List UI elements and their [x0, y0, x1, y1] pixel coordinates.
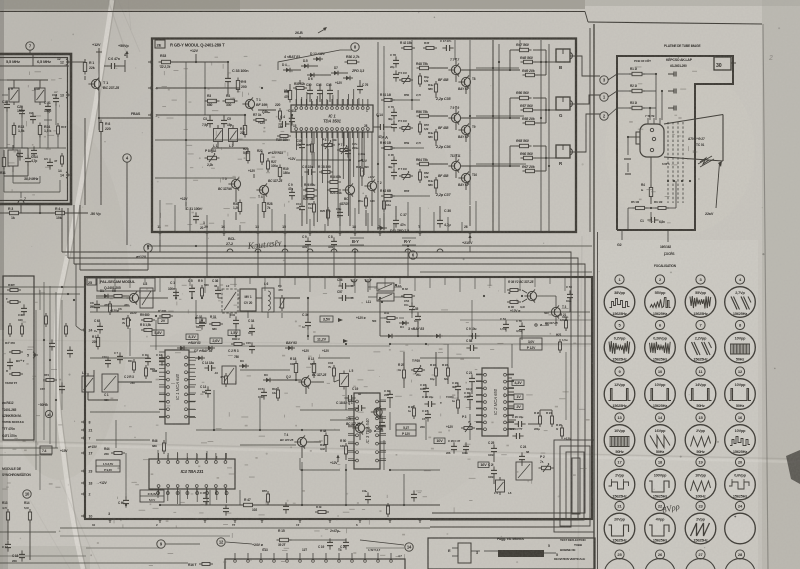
label +12V [302, 349, 330, 353]
waveform scope 6 [645, 320, 676, 362]
node 14 circled [405, 543, 413, 551]
bottom IC box partial [225, 553, 405, 569]
resistor column R60 [380, 141, 421, 150]
capacitor 2,2p C36 [435, 145, 451, 149]
resistor R31 680 [209, 315, 223, 331]
CRT socket pins [645, 114, 670, 166]
wire [157, 62, 240, 115]
capacitor C27 [422, 409, 431, 422]
wire IC1 pin drops [297, 88, 365, 224]
resistor R22s [430, 363, 438, 379]
resistor R18 390 [318, 165, 333, 174]
capacitor C30 [306, 83, 313, 98]
wire [126, 162, 128, 245]
PAL-SECAM module label [87, 278, 155, 291]
label C1 680 [104, 393, 109, 402]
resistor R48 75k [416, 62, 432, 70]
coil L6 vertical [262, 282, 274, 312]
diode D3b [239, 359, 249, 368]
deflection module box [428, 538, 595, 569]
boxed 2V b [514, 404, 523, 410]
transistor T1 [88, 77, 120, 90]
capacitor 2,2p C35 [435, 97, 451, 101]
capacitor C17s [258, 387, 267, 400]
boxed 3,0V P12V [520, 338, 542, 350]
resistor R47 [516, 43, 532, 52]
capacitor 2,2p C37 [435, 193, 451, 197]
PAL-SECAM module box [85, 277, 592, 519]
label +12V [92, 43, 102, 52]
resistor R8 220 [99, 120, 110, 135]
label 48,4 IF [44, 157, 58, 170]
label FOCUS 16V [660, 230, 674, 256]
resistor R12s [272, 387, 280, 401]
boxed 5,8V [152, 330, 164, 336]
wire SECAM verticals [116, 300, 566, 505]
capacitor C19 IF [52, 93, 59, 106]
waveform scope 20 [725, 457, 756, 499]
terminal SECAM bottom 360 [357, 518, 363, 523]
wire B to node 3 [577, 56, 600, 76]
terminal 23 SECAM left [81, 468, 92, 474]
resistor R26b 1k [556, 423, 564, 439]
resistor R22 [257, 149, 264, 165]
waveform scope 27 (partial) [686, 550, 715, 569]
label -50Hz [38, 402, 48, 407]
label PLATINE DE TUBE IMAGE [664, 44, 700, 48]
resistor R18 10k [290, 357, 298, 376]
capacitor C32 [196, 315, 205, 330]
handwritten Kontroll [246, 239, 283, 252]
resistor R19b [383, 198, 392, 212]
label +12V [510, 309, 521, 313]
resistor R36s [507, 289, 521, 296]
capacitor C36b [302, 313, 311, 330]
label BCL 27-2 [226, 237, 236, 246]
wire [650, 74, 662, 120]
label 10n0 [466, 387, 473, 391]
capacitor C54 [500, 317, 509, 332]
resistor R58 [522, 117, 538, 125]
capacitor C10 [296, 139, 305, 152]
resistor R24b [546, 411, 554, 427]
wire long verticals left of border [540, 40, 550, 232]
waveform scope 7 [685, 320, 716, 362]
wire [0, 562, 188, 564]
waveform scope 18 [645, 457, 676, 499]
pot P29 [411, 359, 425, 377]
capacitor C57 47 [337, 290, 354, 301]
label BAY93 [458, 87, 468, 91]
label +12V [248, 169, 256, 178]
capacitor C15 [246, 341, 255, 354]
capacitor C30b 4,7u [437, 209, 451, 228]
waveform scope 10 [645, 367, 676, 409]
marker 30 box [714, 57, 736, 70]
wire [307, 297, 380, 320]
pot P8 R32 [205, 149, 220, 167]
capacitor C19b [318, 538, 333, 549]
node 9b circled [157, 540, 165, 548]
resistor R21b 11k [308, 201, 316, 215]
label 5 BOBINE [548, 544, 550, 548]
label +12V rail [190, 49, 199, 62]
terminal 13 RGB bottom [255, 225, 261, 236]
wire bundle [205, 114, 264, 220]
capacitor C34 1n [248, 319, 255, 336]
resistor R28 7k [262, 200, 272, 215]
sync box contents [5, 283, 27, 385]
wire [7, 80, 48, 85]
resistor R36 2,7k [345, 55, 360, 64]
boxed 3,5V [320, 316, 333, 322]
label BAY93 [458, 183, 468, 187]
label PCB OF CRT [634, 58, 651, 63]
resistor R34 62k [327, 175, 341, 184]
small box 7.4 [40, 446, 52, 454]
capacitor C30s 700n [464, 391, 473, 404]
terminal 2 SECAM left [81, 491, 91, 497]
waveform scope 16 [725, 413, 756, 455]
resistor R1c 1k [629, 67, 645, 76]
diode D2s [385, 334, 395, 338]
capacitor C5s [188, 279, 195, 296]
connector E box [448, 543, 471, 563]
label pins [262, 548, 402, 558]
capacitor C9 [288, 183, 295, 200]
resistor R25 18k [303, 195, 317, 202]
anode 22kV [705, 161, 722, 216]
wire bus horizontal 3 [74, 264, 585, 513]
resistor R41 560 [384, 311, 398, 324]
coil L1s [82, 371, 94, 395]
IF module divider [0, 147, 66, 149]
diode D2b [285, 346, 295, 350]
node 8 circled [351, 43, 359, 51]
waveform scope 17 [604, 457, 635, 499]
resistor R56 [516, 91, 532, 100]
capacitor C58 [466, 339, 478, 351]
wire IC MCA640 stubs [159, 352, 196, 418]
wire G to node 1 [577, 95, 600, 104]
IC U3 TBA540 (IC3) [348, 393, 386, 469]
label +12V [358, 159, 375, 179]
wire SECAM top stubs [100, 277, 565, 293]
IC4 pin dots [157, 492, 229, 495]
label 38,9 MHz [24, 177, 39, 181]
boxed 10V [434, 438, 445, 444]
terminal 18 RGB bottom [352, 225, 358, 236]
terminal SECAM bottom 205 [202, 518, 208, 523]
wire [98, 52, 100, 130]
capacitor C33 100n [225, 69, 249, 86]
node 12 circled [217, 538, 225, 546]
transistor T3 [364, 179, 381, 192]
node 1 circled [600, 93, 608, 101]
boxed 8,1V [186, 334, 198, 340]
waveform scope 28 (partial) [726, 550, 755, 569]
page frame top border [0, 12, 762, 25]
resistor R27 [267, 158, 278, 172]
capacitor C20 [17, 105, 25, 118]
resistor R8s 1,5k [140, 323, 155, 332]
terminal 8 SECAM left [81, 419, 91, 425]
coil L3 tuned box [140, 282, 153, 308]
resistor R38 390 [356, 165, 369, 179]
label R10 470 [214, 371, 228, 387]
diode D12 [310, 52, 326, 61]
label BAY 93 [286, 341, 297, 345]
capacitor C35 1n [412, 307, 421, 324]
resistor R67 [522, 165, 538, 173]
wire cluster below IC1 [302, 132, 384, 226]
capacitor C4 [288, 109, 295, 126]
label BF458 [438, 78, 448, 82]
capacitor C23 100n [420, 383, 429, 396]
boxed 1V [196, 318, 206, 324]
resistor R20 18k [276, 135, 291, 143]
capacitor C25 100n [488, 441, 497, 457]
terminal SECAM bottom 390 [387, 518, 393, 523]
wire [84, 118, 86, 205]
waveform scope 14 [645, 413, 676, 455]
transistor Q2 BC327 [286, 373, 326, 389]
label 3 [471, 551, 480, 555]
cap column C79 [388, 105, 397, 132]
wire lower horizontals [0, 528, 430, 556]
resistor R10s 680 [158, 309, 173, 318]
varicap box 2 [222, 366, 236, 384]
resistor R38s [507, 301, 525, 310]
resistor R15 [277, 529, 292, 547]
IF extra caps [17, 146, 64, 167]
terminal 4 top [351, 279, 357, 286]
resistor R33 [159, 54, 174, 69]
terminal 15 RGB bottom [282, 225, 288, 236]
capacitor C19s 82 [344, 387, 361, 401]
label 3 20 [200, 221, 205, 230]
resistor R19 [278, 165, 290, 180]
label +24V [252, 543, 264, 547]
transistor T1 BF199 [242, 97, 267, 110]
label BF458 [438, 174, 448, 178]
capacitor C1c 6,8n [640, 217, 665, 224]
section separator line [594, 24, 598, 569]
wire bus vertical bundle left [62, 205, 80, 270]
wire [390, 352, 470, 414]
terminal 5 sync box [27, 352, 38, 358]
transistor T9 [458, 123, 475, 136]
label MODULE DE [2, 467, 22, 471]
label +210V [462, 235, 473, 246]
wire -50Vp [0, 205, 101, 216]
output connector R [556, 145, 577, 166]
junction dots RGB [185, 61, 550, 165]
capacitor C20s 100n [376, 415, 385, 431]
resistor R48s [320, 429, 328, 451]
label R16 [188, 563, 213, 568]
resistor R64 75k [416, 158, 432, 166]
capacitor C20c [340, 538, 349, 549]
wire [299, 36, 301, 39]
CRT socket left stubs [624, 136, 640, 174]
resistor R42 h [401, 287, 415, 298]
resistor R66 [520, 152, 536, 160]
resistor R21 5,6k [243, 147, 250, 164]
resistor R77 [306, 141, 314, 155]
terminal 4 on RGB left edge [148, 85, 158, 91]
spark gap arrows [698, 156, 714, 167]
inductor Q3b [258, 110, 276, 114]
capacitor C3 [202, 116, 213, 127]
label +12V [110, 309, 137, 315]
transistor T 9 [448, 106, 460, 125]
wire [0, 448, 58, 494]
terminal 11 RGB bottom [157, 225, 163, 236]
SECAM bottom row parts [200, 489, 417, 517]
terminal 24 secam left [81, 327, 92, 333]
wire RGB bottom drops [160, 200, 476, 232]
resistor R5c 10k [631, 200, 648, 210]
resistor R11 [0, 155, 6, 176]
transistor Q1 [371, 406, 382, 418]
capacitor C31s [230, 313, 239, 328]
resistor P5 10k row1 [398, 71, 429, 87]
diode D5 [301, 59, 311, 68]
capacitor C36s 33p [212, 279, 221, 298]
boxed 2,6V [210, 338, 222, 344]
scan texture smudges [2, 56, 697, 565]
capacitor C1s 100n [168, 281, 179, 300]
sync module partial box [3, 276, 34, 440]
wire [273, 373, 339, 394]
resistor R6c 10k [654, 200, 669, 210]
diode D4s [399, 321, 409, 329]
transistor T8 [458, 75, 475, 88]
label 55 o [152, 369, 157, 373]
label SYNCHRONISATION [2, 473, 32, 477]
resistor R3b 680 [205, 94, 220, 107]
resistor R1s 220 [92, 335, 100, 350]
resistor R2c 1k [629, 84, 645, 93]
wire [380, 320, 592, 336]
label o+12V [96, 481, 108, 485]
wire IF [0, 80, 60, 198]
capacitor C55 [516, 319, 525, 334]
wire IC4 stubs [158, 450, 227, 505]
label 470 [104, 301, 112, 315]
capacitor C22 IF [29, 111, 36, 124]
label 220 [275, 103, 282, 122]
terminal SECAM bottom 330 [327, 518, 333, 523]
label 16V [478, 462, 489, 468]
capacitor C11 C12 [142, 353, 165, 366]
capacitor C14b 47u [376, 113, 388, 140]
resistor column R51 [380, 93, 421, 102]
wire [472, 378, 552, 484]
resistor H21 1,5k [556, 333, 568, 353]
wire right rails [493, 28, 590, 232]
waveform scope 5 [604, 320, 635, 362]
label +12V [288, 157, 296, 161]
wire output stage [429, 98, 556, 146]
capacitor C18b [326, 83, 333, 98]
coil L4 [494, 477, 512, 495]
label 0+12V [136, 255, 147, 259]
IF module top divider [0, 55, 69, 66]
zener ZPD 3,3 [343, 69, 364, 80]
resistor R4c [641, 183, 653, 200]
wire RGB verticals [186, 40, 520, 230]
resistor R16 IF [57, 123, 67, 137]
capacitor C26 C37b [448, 439, 469, 454]
pot P5 [321, 138, 337, 149]
transistor T3s BC337 [545, 305, 569, 325]
capacitor C14s 18u [202, 361, 216, 371]
capacitor C76 [357, 82, 369, 93]
wire [278, 50, 352, 75]
label 240u [358, 152, 365, 156]
waveform scope 11 [685, 367, 716, 409]
resistor column R62 [380, 189, 410, 198]
wire bus between modules [148, 240, 592, 272]
label D7 BAY93 [194, 349, 212, 360]
pot P2 7k [539, 455, 554, 472]
waveform scope 23 [685, 501, 716, 543]
node 3 circled [600, 76, 608, 84]
handwritten 8Vpp [661, 501, 681, 515]
label +12V 560 [356, 316, 377, 323]
label +12V [180, 197, 188, 206]
transistor T5 BC327 [218, 177, 241, 191]
transistor T5s BC327 [346, 417, 365, 435]
terminal 18 SECAM left [81, 480, 92, 486]
label 5 [556, 553, 558, 557]
resistor R3s 780 [228, 349, 239, 359]
capacitor C6 [107, 57, 119, 69]
waveform scope 3 [685, 275, 716, 317]
resistor column R42 [400, 39, 454, 51]
transistor T4s BC327 [280, 433, 307, 449]
terminal 20 RGB bottom [204, 225, 210, 236]
label B-Y [350, 238, 364, 245]
resistor R13 [12, 123, 24, 138]
wire CRT inputs [608, 73, 663, 116]
boxed 1,5-2,5V P9,3V [96, 460, 120, 472]
waveform scope 25 (partial) [605, 550, 634, 569]
resistor R4b 330 [223, 94, 238, 107]
capacitor C14 [25, 154, 38, 165]
wire transformer [348, 286, 412, 318]
resistor R48 [520, 56, 536, 64]
diode D4 [282, 63, 293, 72]
label BAY93 [458, 135, 468, 139]
boxed 5,1V P12V [396, 424, 416, 436]
label +50Vp [118, 44, 129, 58]
terminal SECAM bottom 262 [259, 518, 265, 523]
capacitor C8b [328, 235, 337, 249]
zener D11 ZPD 7,5 [377, 226, 409, 233]
capacitor C7 C10 [102, 351, 123, 368]
capacitor C8 22n [302, 165, 316, 175]
terminal 7 SECAM left [81, 435, 91, 441]
capacitor C9c 10u [466, 327, 480, 339]
waveform scope 15 [685, 413, 716, 455]
waveform scope 13 [604, 413, 635, 455]
label +12V [330, 455, 340, 466]
resistor R65 [516, 139, 532, 148]
capacitor C4b [278, 115, 290, 129]
